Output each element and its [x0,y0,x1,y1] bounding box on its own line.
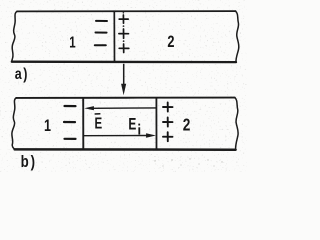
paper grain speckle [0,0,247,172]
plus charges panel a (dotted column) [119,15,129,53]
conductor bar a bottom edge [12,61,236,64]
E field arrow (leftward) head [84,106,94,110]
paper background [0,0,247,172]
label 2 panel a [167,32,174,51]
svg-text:E: E [94,114,102,132]
conductor bar b left torn edge [12,98,16,149]
svg-text:b): b) [21,152,37,171]
minus charges panel a [95,21,107,45]
conductor bar a top edge [17,10,236,12]
svg-text:1: 1 [69,32,76,50]
gap box left line panel b [82,97,84,149]
label 1 panel b [44,116,51,135]
label E_i subscript i dot [138,124,140,126]
arrow from a to b, shaft [123,64,125,86]
E field arrow (leftward) shaft [92,107,156,109]
conductor bar a left torn edge [12,11,17,61]
label b) [21,152,37,171]
conductor bar a right torn edge [236,11,239,62]
minus charges panel b [64,106,76,139]
E_i field arrow (rightward) head [146,133,156,137]
plus charges panel b [163,103,173,142]
label 2 panel b [183,116,191,135]
arrow from a to b, head [121,84,126,96]
macron over E [95,113,101,115]
conductor bar b bottom edge [15,148,236,151]
svg-text:1: 1 [44,116,51,135]
label a) [15,66,29,84]
label E_i subscript i stem [138,127,140,134]
label 1 panel a [69,32,76,50]
label E_i (internal field) E glyph [128,116,136,134]
conductor bar b top edge [16,97,235,99]
label E bar (external field) [94,114,102,132]
conductor bar b right torn edge [235,98,238,150]
E_i field arrow (rightward) shaft [84,135,147,137]
gap box right line panel b [155,97,157,150]
svg-text:E: E [128,116,136,134]
interface line panel a [113,11,115,62]
svg-text:2: 2 [167,32,174,51]
dots between plus charges panel a [123,12,125,42]
svg-text:a): a) [15,66,29,84]
svg-text:2: 2 [183,116,191,135]
scan speckles lower right [154,158,222,166]
